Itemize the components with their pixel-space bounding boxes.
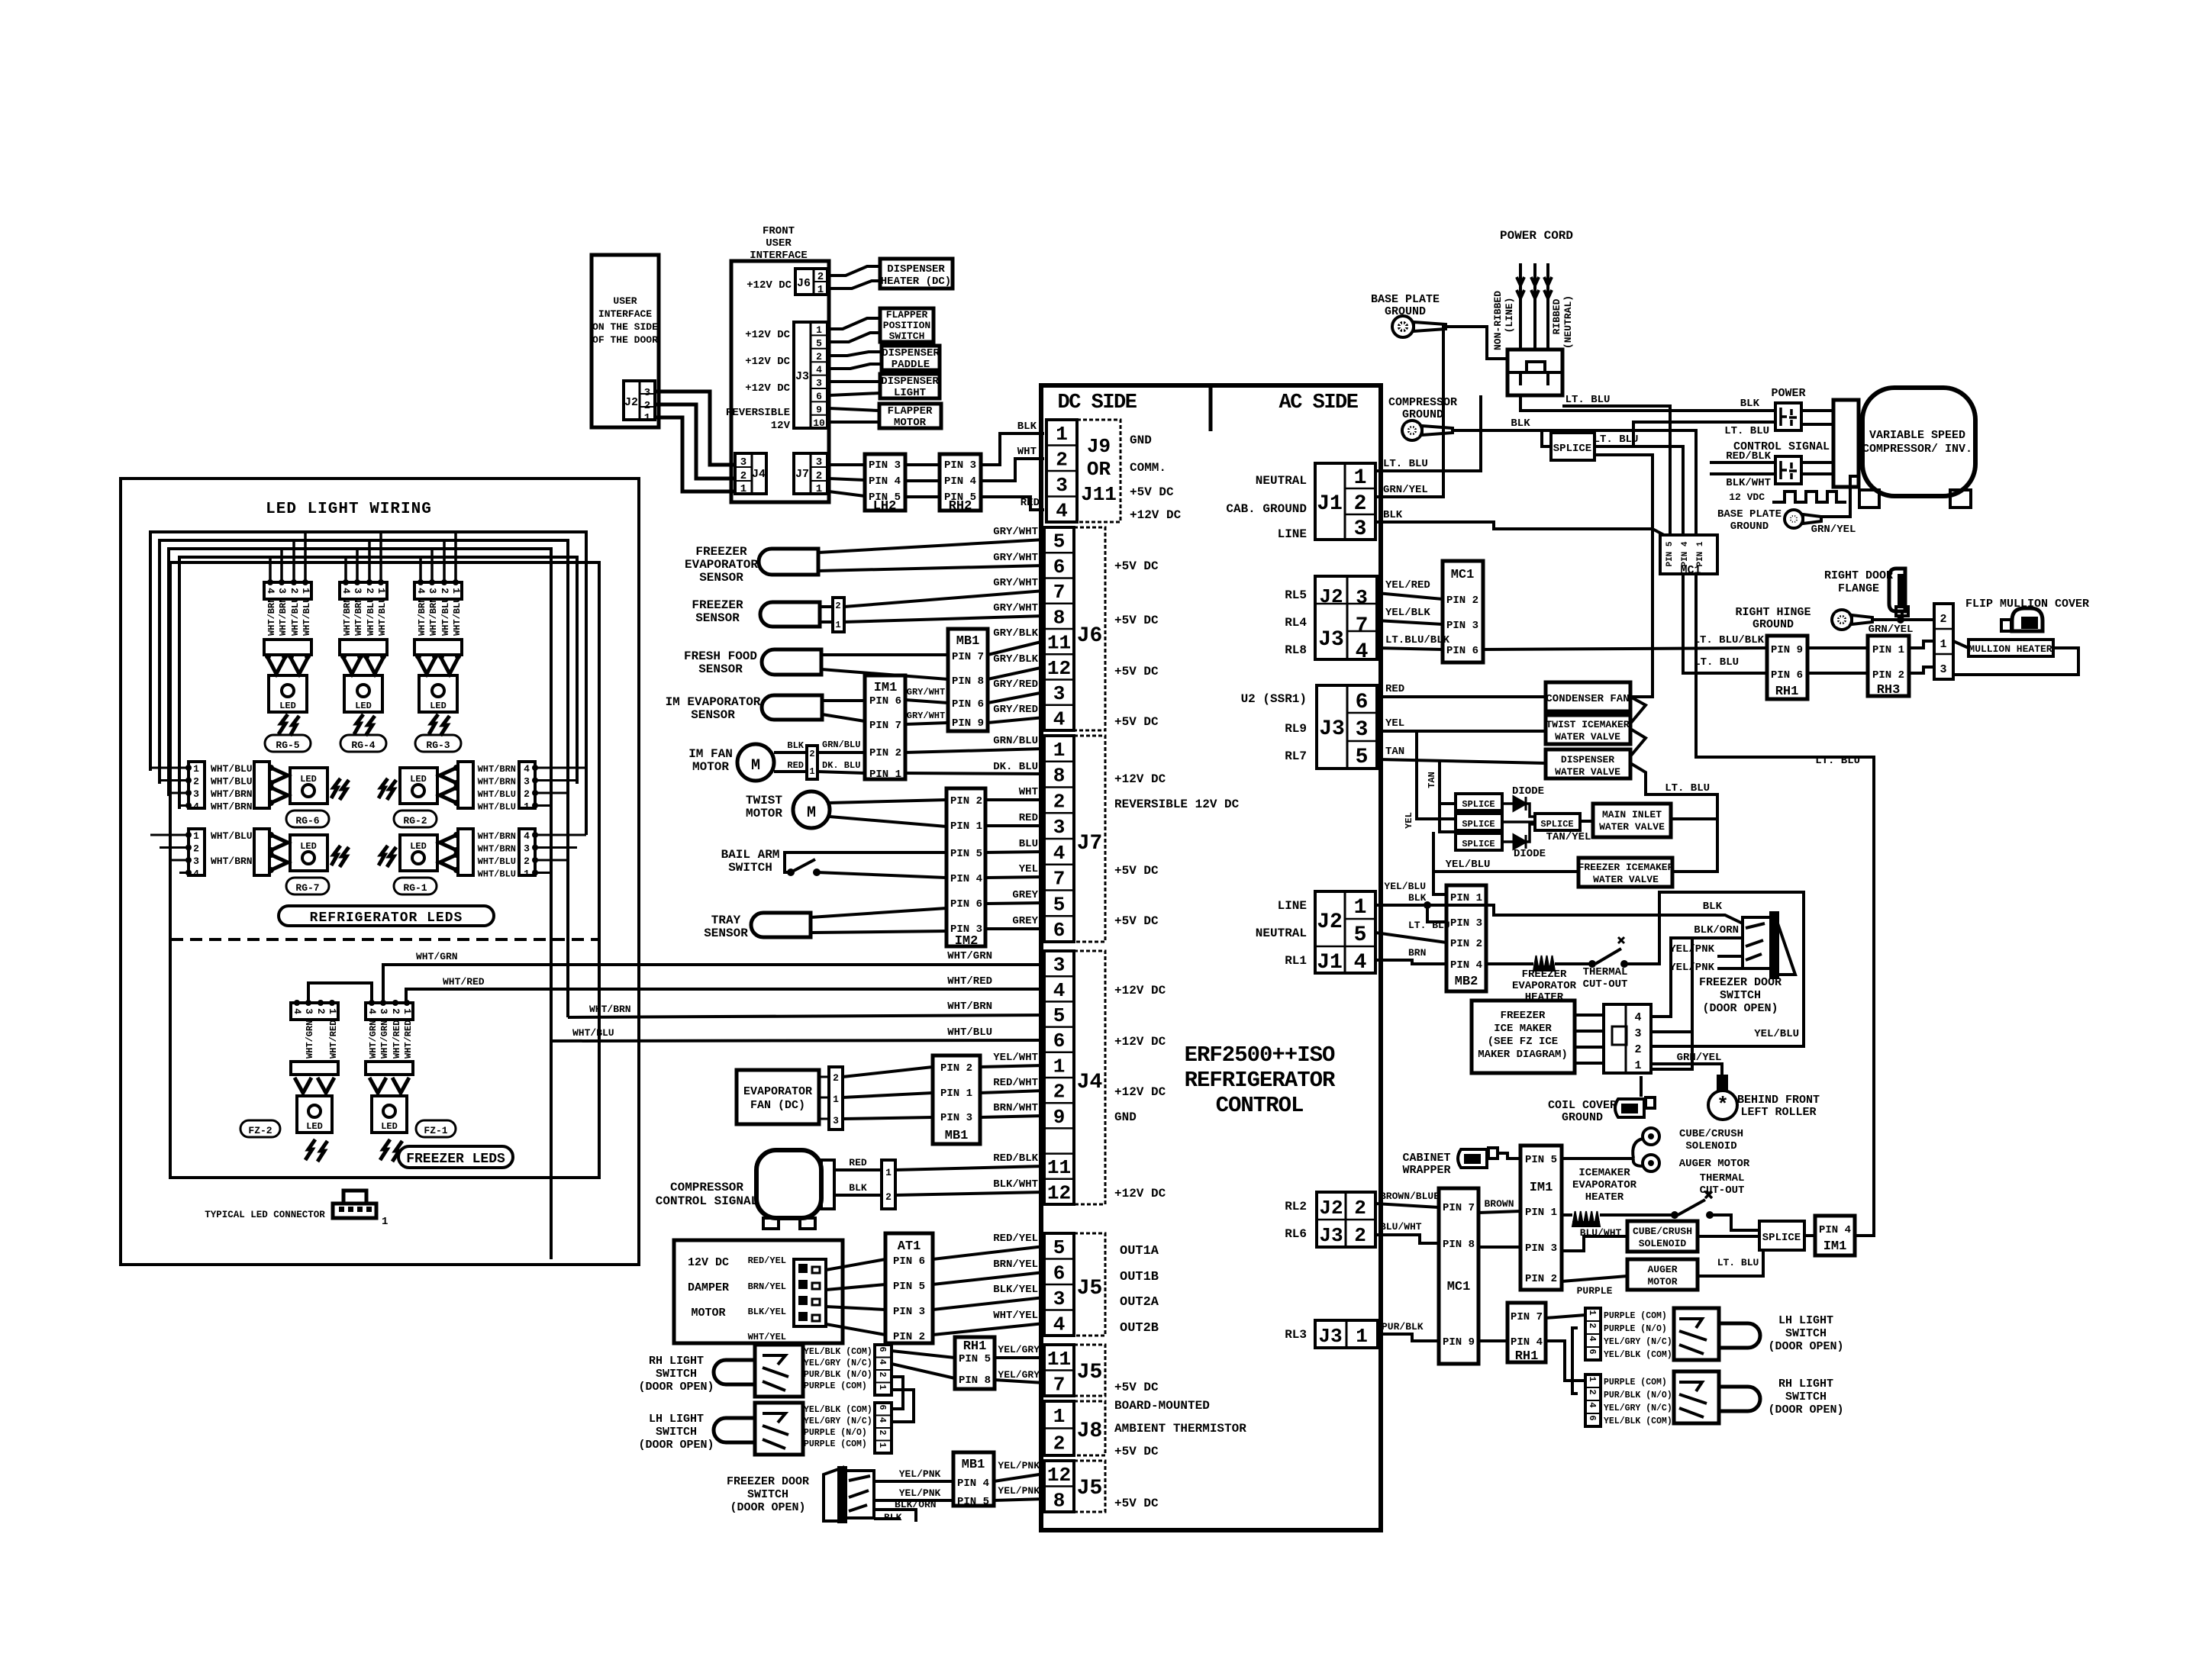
svg-text:GROUND: GROUND [1402,408,1443,421]
svg-text:PIN 7: PIN 7 [869,720,901,732]
svg-text:BLK: BLK [1408,892,1427,904]
wire hinge ground GRN/YEL to mullion conn [1872,618,1934,621]
LED FZ-1 assembly [366,1003,413,1020]
svg-text:YEL/BLK: YEL/BLK [1385,607,1430,619]
connector J5 11/7 [1044,1345,1074,1396]
svg-text:RG-5: RG-5 [276,740,299,751]
LH light switch connector pins [875,1403,892,1453]
svg-text:YEL/BLK (COM): YEL/BLK (COM) [1604,1350,1672,1360]
svg-text:LED LIGHT WIRING: LED LIGHT WIRING [266,501,432,518]
svg-text:TAN/YEL: TAN/YEL [1546,831,1591,843]
svg-text:WHT/BRN: WHT/BRN [478,777,516,788]
wire J1 GRN/YEL to base plate ground [1375,327,1447,497]
svg-text:SENSOR: SENSOR [704,927,748,940]
svg-text:WATER VALVE: WATER VALVE [1555,766,1620,778]
svg-text:3: 3 [816,378,822,389]
svg-text:NON-RIBBED: NON-RIBBED [1492,291,1504,350]
svg-text:12V: 12V [771,420,791,432]
svg-text:RH2: RH2 [949,499,972,514]
svg-text:TYPICAL LED CONNECTOR: TYPICAL LED CONNECTOR [205,1210,325,1220]
svg-text:LH2: LH2 [873,499,897,514]
svg-text:IM1: IM1 [874,681,898,695]
svg-text:PIN 4: PIN 4 [1511,1336,1543,1349]
LED light wiring outer box [121,479,639,1265]
svg-text:2: 2 [877,1429,888,1435]
svg-text:RH LIGHT: RH LIGHT [1778,1378,1833,1391]
svg-text:J5: J5 [1077,1477,1103,1500]
svg-text:FZ-1: FZ-1 [424,1125,447,1136]
svg-text:2: 2 [1354,1224,1366,1247]
svg-text:EVAPORATOR: EVAPORATOR [1512,980,1577,992]
wire splice to condenser loads [1595,455,1653,697]
svg-text:LT. BLU: LT. BLU [1408,920,1450,931]
svg-text:SOLENOID: SOLENOID [1639,1238,1687,1249]
svg-text:2: 2 [1056,448,1068,471]
svg-text:PIN 1: PIN 1 [1696,541,1705,566]
svg-text:4: 4 [1056,499,1068,522]
svg-text:YEL/PNK: YEL/PNK [998,1485,1040,1497]
front user interface box [731,261,829,502]
svg-text:RL9: RL9 [1285,722,1307,736]
svg-text:4: 4 [1587,1336,1598,1341]
svg-text:WHT/BRN: WHT/BRN [278,598,289,636]
wire evap fan to MB1 [843,1067,933,1077]
svg-text:(LINE): (LINE) [1504,298,1515,334]
svg-text:PIN 1: PIN 1 [950,820,982,833]
svg-text:2: 2 [1587,1389,1598,1394]
svg-text:WHT/BRN: WHT/BRN [478,764,516,775]
svg-text:WHT/BRN: WHT/BRN [211,856,253,867]
svg-text:SWITCH: SWITCH [656,1368,697,1381]
svg-text:RH LIGHT: RH LIGHT [649,1355,704,1368]
wire ice maker pin 4 up BLK/ORN [1651,938,1743,1017]
connector RH1 (light switches) [1507,1303,1546,1362]
svg-text:BRN/WHT: BRN/WHT [993,1102,1038,1114]
svg-text:J2: J2 [1319,585,1343,608]
svg-text:2: 2 [1053,1081,1066,1104]
svg-text:LED: LED [410,774,427,785]
svg-text:YEL/PNK: YEL/PNK [899,1468,941,1480]
svg-text:REFRIGERATOR: REFRIGERATOR [1185,1068,1336,1093]
svg-text:LT. BLU: LT. BLU [1815,755,1860,767]
svg-text:+12V DC: +12V DC [745,356,790,368]
svg-text:LH LIGHT: LH LIGHT [649,1413,704,1426]
svg-text:BASE PLATE: BASE PLATE [1371,293,1440,306]
svg-text:8: 8 [1053,765,1066,788]
svg-text:GRY/WHT: GRY/WHT [907,711,945,721]
svg-text:FREEZER DOOR: FREEZER DOOR [1699,976,1782,989]
svg-text:LT. BLU/BLK: LT. BLU/BLK [1694,634,1765,646]
connector IM1 (sensors) [865,675,905,779]
svg-text:GROUND: GROUND [1753,618,1794,631]
svg-text:PIN 2: PIN 2 [1450,938,1482,950]
svg-text:3: 3 [1356,718,1369,742]
svg-text:6: 6 [877,1404,888,1410]
svg-text:IM EVAPORATOR: IM EVAPORATOR [666,695,761,709]
svg-text:FZ-2: FZ-2 [248,1125,272,1136]
svg-text:MOTOR: MOTOR [1647,1276,1677,1287]
wire MC1 pin9 to RH1 [1478,1339,1507,1342]
svg-text:AMBIENT THERMISTOR: AMBIENT THERMISTOR [1114,1422,1246,1436]
cube/crush solenoid bullet [1643,1128,1659,1145]
svg-text:(DOOR OPEN): (DOOR OPEN) [638,1439,714,1452]
svg-text:TWIST: TWIST [746,794,782,807]
svg-text:3: 3 [1356,586,1368,609]
svg-text:TWIST ICEMAKER: TWIST ICEMAKER [1546,719,1629,730]
svg-text:+12V DC: +12V DC [1114,1187,1166,1200]
connector J3 relays U2 RL9 RL7 [1317,685,1377,769]
svg-text:RG-2: RG-2 [403,815,427,827]
wire YEL/BLU to freezer icemaker valve [1433,832,1578,872]
svg-text:5: 5 [1053,1004,1066,1027]
svg-text:MC1: MC1 [1447,1280,1471,1294]
svg-text:SENSOR: SENSOR [691,708,735,722]
svg-text:BASE PLATE: BASE PLATE [1717,508,1782,520]
svg-text:11: 11 [1047,1156,1071,1179]
wire RH1 to LH switch col [1546,1315,1585,1318]
svg-text:PIN 4: PIN 4 [869,475,901,488]
svg-text:PURPLE (COM): PURPLE (COM) [804,1381,867,1391]
svg-text:BROWN: BROWN [1484,1198,1514,1210]
svg-text:YEL/GRY: YEL/GRY [998,1369,1040,1381]
wire IM1 pin2 PURPLE to auger box [1562,1276,1627,1281]
svg-text:YEL: YEL [1019,863,1038,875]
svg-text:2: 2 [1940,613,1946,626]
svg-text:+12V DC: +12V DC [745,329,790,341]
svg-text:PIN 5: PIN 5 [1665,541,1675,566]
svg-text:J3: J3 [1318,1325,1342,1348]
svg-text:PIN 6: PIN 6 [952,698,984,711]
connector IM1 (freezer icemaker) [1520,1146,1562,1290]
svg-text:RG-7: RG-7 [295,882,319,894]
svg-text:PIN 5: PIN 5 [959,1353,991,1365]
svg-text:SWITCH: SWITCH [1785,1391,1827,1403]
evaporator fan 3-pin connector [829,1067,843,1130]
auger motor box [1627,1259,1698,1290]
svg-text:AC SIDE: AC SIDE [1279,392,1359,414]
svg-text:9: 9 [1053,1106,1066,1129]
svg-text:BLK/YEL: BLK/YEL [748,1307,786,1317]
svg-text:+5V DC: +5V DC [1130,485,1174,499]
wire LH col to RH col (AC) [1572,1328,1578,1394]
wire MC1 pin8 to IM1 pin3 [1478,1246,1520,1249]
splice box (icemaker) [1759,1221,1804,1250]
svg-text:J6: J6 [1077,624,1103,648]
svg-text:SPLICE: SPLICE [1762,1232,1801,1244]
svg-text:PUR/BLK (N/O): PUR/BLK (N/O) [804,1370,872,1380]
svg-text:MAKER DIAGRAM): MAKER DIAGRAM) [1478,1049,1568,1061]
svg-text:BLK/ORN: BLK/ORN [895,1499,937,1510]
svg-text:2: 2 [1053,790,1066,813]
connector MC1 (relays) [1443,561,1483,662]
svg-text:4: 4 [265,588,276,594]
svg-text:RH3: RH3 [1877,683,1901,698]
svg-text:4: 4 [877,1417,888,1423]
svg-text:PIN 4: PIN 4 [944,475,976,488]
LED RG-3 assembly [414,582,462,599]
svg-text:FREEZER LEDS: FREEZER LEDS [406,1152,505,1167]
connector RH1 (DC) [955,1337,995,1389]
svg-text:INTERFACE: INTERFACE [598,308,652,320]
svg-text:ICEMAKER: ICEMAKER [1578,1167,1630,1179]
svg-text:OUT2B: OUT2B [1120,1321,1159,1336]
svg-text:PIN 6: PIN 6 [1446,645,1478,657]
svg-text:PIN 2: PIN 2 [1872,669,1904,682]
svg-text:PADDLE: PADDLE [892,359,930,371]
svg-text:2: 2 [1354,492,1367,516]
label REFRIGERATOR LEDS [279,906,494,926]
svg-text:6: 6 [1053,556,1066,578]
svg-text:4: 4 [877,1359,888,1365]
svg-text:4: 4 [1053,1313,1066,1336]
svg-text:PIN 3: PIN 3 [1446,620,1478,632]
svg-text:RL5: RL5 [1285,588,1307,602]
svg-text:3: 3 [644,387,650,399]
svg-text:(SEE FZ ICE: (SEE FZ ICE [1488,1036,1558,1048]
svg-text:USER: USER [766,237,792,250]
connector J4 [1044,951,1074,1204]
svg-text:9: 9 [816,404,822,415]
svg-text:+5V DC: +5V DC [1114,614,1159,627]
svg-text:+5V DC: +5V DC [1114,715,1159,729]
wire MC1 pin7 BROWN to IM1 pin1 [1478,1211,1520,1213]
svg-text:6: 6 [1053,919,1066,942]
svg-text:J2: J2 [624,396,638,409]
svg-text:PIN 3: PIN 3 [1525,1242,1557,1255]
svg-text:PIN 7: PIN 7 [1443,1202,1475,1214]
svg-text:PIN 3: PIN 3 [940,1112,972,1124]
svg-text:PIN 8: PIN 8 [959,1374,991,1387]
svg-text:CONDENSER FAN: CONDENSER FAN [1546,693,1629,705]
svg-text:1: 1 [1354,896,1367,920]
compressor control 2-pin connector [882,1160,895,1209]
svg-text:4: 4 [524,830,530,842]
svg-text:1: 1 [885,1167,892,1178]
svg-text:3: 3 [352,588,363,594]
wire J3 to flapper position switch [829,318,880,329]
svg-text:RED: RED [1021,497,1040,509]
svg-text:BLK/WHT: BLK/WHT [1726,477,1771,489]
svg-text:MULLION HEATER: MULLION HEATER [1969,643,2052,655]
svg-text:2: 2 [1587,1323,1598,1328]
svg-text:EVAPORATOR: EVAPORATOR [1572,1179,1637,1191]
svg-text:6: 6 [1587,1349,1598,1354]
svg-text:PURPLE (COM): PURPLE (COM) [804,1439,867,1449]
svg-text:TRAY: TRAY [711,914,741,927]
svg-text:3: 3 [1354,517,1367,541]
wire connector to J4 pins 11/12 [895,1166,1044,1170]
freezer sensor 2-pin connector [833,598,844,632]
svg-text:OUT1B: OUT1B [1120,1270,1159,1284]
svg-text:COMPRESSOR: COMPRESSOR [670,1181,743,1194]
svg-text:2: 2 [644,400,650,412]
wire J2 relays to MC1 [1377,593,1443,599]
svg-text:MB1: MB1 [945,1129,969,1143]
svg-text:(DOOR OPEN): (DOOR OPEN) [638,1381,714,1394]
svg-text:RED: RED [1385,683,1404,695]
svg-text:OF THE DOOR: OF THE DOOR [592,334,658,346]
svg-text:1: 1 [809,766,814,777]
svg-text:ERF2500++ISO: ERF2500++ISO [1185,1043,1335,1068]
svg-text:RL4: RL4 [1285,616,1307,630]
svg-text:WHT/YEL: WHT/YEL [993,1310,1038,1322]
svg-text:POSITION: POSITION [883,320,930,331]
svg-text:PIN 1: PIN 1 [1450,892,1482,904]
svg-text:SPLICE: SPLICE [1540,819,1573,830]
svg-text:AUGER MOTOR: AUGER MOTOR [1679,1158,1750,1170]
wire stubs left connectors [150,767,189,769]
wire J3 YEL to twist valve [1377,730,1546,733]
svg-text:LED: LED [381,1121,398,1132]
svg-text:FRONT: FRONT [763,225,795,237]
svg-text:2: 2 [816,351,822,363]
svg-text:EVAPORATOR: EVAPORATOR [685,558,758,572]
main inlet water valve box [1593,804,1671,837]
svg-text:CUT-OUT: CUT-OUT [1583,978,1628,991]
wire NEUTRAL LT.BLU to MB2 [1375,933,1446,943]
svg-text:RH1: RH1 [963,1339,987,1354]
svg-text:WHT/BRN: WHT/BRN [342,598,353,636]
power plug box [1507,350,1562,395]
svg-text:SENSOR: SENSOR [695,611,740,625]
wire thermal cutout to freezer door switch loop [1624,892,1804,1046]
LED RG-6 assembly [189,762,205,808]
wire power connector to compressor conn [1801,409,1833,412]
svg-text:1: 1 [833,1094,839,1105]
svg-text:SPLICE: SPLICE [1462,799,1495,810]
mullion heater box [1969,640,2053,656]
wire RH1 to RH3 [1807,646,1868,649]
svg-text:3: 3 [740,456,746,469]
svg-text:RH1: RH1 [1515,1349,1539,1364]
svg-text:2: 2 [193,776,199,788]
wire IM1 to J7 pins 1/8 [905,749,1044,752]
svg-text:(DOOR OPEN): (DOOR OPEN) [1768,1403,1843,1416]
connector J2 [624,381,655,420]
svg-text:J11: J11 [1081,483,1117,506]
svg-text:PIN 4: PIN 4 [957,1478,989,1490]
svg-text:2: 2 [885,1191,892,1203]
svg-text:NEUTRAL: NEUTRAL [1256,927,1307,940]
wire auger box LT. BLU to splice [1698,1250,1763,1276]
svg-text:BLK/YEL: BLK/YEL [993,1284,1038,1296]
svg-text:GRN/BLU: GRN/BLU [993,735,1038,747]
svg-text:3: 3 [816,456,822,469]
svg-text:BLK: BLK [1383,509,1403,521]
svg-text:WHT/BRN: WHT/BRN [353,598,364,636]
svg-text:2: 2 [809,749,814,759]
svg-text:MOTOR: MOTOR [894,417,927,429]
svg-text:WHT/GRN: WHT/GRN [416,951,458,962]
svg-text:GRY/RED: GRY/RED [993,704,1038,716]
svg-text:YEL/BLK (COM): YEL/BLK (COM) [1604,1416,1672,1426]
connector J3 RL3 [1315,1320,1378,1348]
svg-text:J9: J9 [1087,435,1111,458]
svg-text:J4: J4 [1077,1071,1103,1094]
svg-text:WHT: WHT [1017,446,1037,458]
svg-text:1: 1 [1354,466,1367,490]
svg-text:PIN 1: PIN 1 [1872,644,1904,656]
svg-text:WHT/RED: WHT/RED [403,1020,414,1059]
svg-text:1: 1 [376,588,387,594]
svg-text:8: 8 [1053,1489,1066,1512]
svg-text:BLU/WHT: BLU/WHT [1380,1221,1422,1233]
svg-text:5: 5 [1354,923,1367,947]
svg-text:PIN 6: PIN 6 [869,695,901,707]
svg-text:1: 1 [401,1008,413,1014]
svg-text:RIGHT HINGE: RIGHT HINGE [1735,606,1811,619]
svg-text:7: 7 [1053,581,1066,604]
svg-text:YEL: YEL [1385,717,1404,730]
svg-text:PURPLE (COM): PURPLE (COM) [1604,1311,1667,1321]
svg-text:1: 1 [835,620,840,630]
svg-text:WHT/BLU: WHT/BLU [478,802,516,813]
svg-text:GREY: GREY [1012,915,1038,927]
box FLAPPER MOTOR [879,404,941,428]
svg-text:BLK: BLK [1511,417,1530,430]
svg-text:J5: J5 [1077,1361,1103,1384]
svg-text:MOTOR: MOTOR [746,807,782,820]
dispenser water valve box [1546,749,1630,778]
wire IM evap sensor to IM1 [822,699,865,702]
svg-text:RL6: RL6 [1285,1227,1307,1241]
svg-text:PIN 3: PIN 3 [944,459,976,472]
svg-text:RG-1: RG-1 [403,882,427,894]
svg-text:RED/BLK: RED/BLK [993,1152,1038,1165]
svg-text:4: 4 [366,1008,378,1014]
svg-text:8: 8 [1053,606,1066,629]
svg-text:BRN/YEL: BRN/YEL [748,1281,786,1292]
connector J2/J3 relays RL5 RL4 RL8 [1315,576,1377,659]
svg-text:+5V DC: +5V DC [1114,914,1159,928]
wire RH2 to J9 pin 1 BLK [981,433,1044,465]
svg-text:PIN 8: PIN 8 [1443,1239,1475,1251]
svg-text:LED: LED [410,841,427,852]
svg-text:BLK: BLK [1703,901,1723,913]
svg-text:1: 1 [1053,1055,1066,1078]
svg-text:3: 3 [1634,1027,1641,1040]
svg-text:PIN 3: PIN 3 [1450,917,1482,930]
LED RG-5 assembly [264,582,311,599]
svg-text:PIN 4: PIN 4 [1450,959,1482,972]
splice box (power) [1551,433,1595,460]
svg-text:PIN 5: PIN 5 [893,1281,925,1293]
svg-text:SWITCH: SWITCH [728,861,772,875]
svg-text:DIODE: DIODE [1512,785,1544,798]
svg-text:RED/BLK: RED/BLK [1726,450,1771,462]
wire IM fan motor to IM1 [774,751,807,754]
wire J2 to J4 (door UI) [655,392,735,465]
svg-text:+5V DC: +5V DC [1114,1445,1159,1458]
connector J3 (front UI) [794,322,827,428]
svg-text:PIN 9: PIN 9 [1443,1336,1475,1349]
svg-text:1: 1 [644,412,650,424]
wire freezer door switch to MB1 [874,1480,953,1483]
svg-text:BAIL ARM: BAIL ARM [721,848,780,862]
connector J1 (AC) [1315,463,1375,540]
evaporator fan box [737,1070,819,1124]
svg-text:J6: J6 [797,277,811,290]
svg-text:COMPRESSOR/ INV.: COMPRESSOR/ INV. [1862,443,1972,456]
connector LH2 [865,454,905,511]
svg-text:PIN 1: PIN 1 [1525,1207,1557,1219]
svg-text:SPLICE: SPLICE [1462,819,1495,830]
svg-text:GND: GND [1130,433,1152,447]
svg-text:LED: LED [306,1121,323,1132]
svg-text:(DOOR OPEN): (DOOR OPEN) [730,1501,805,1514]
svg-text:WHT/YEL: WHT/YEL [748,1332,786,1342]
svg-text:COIL COVER: COIL COVER [1548,1099,1617,1112]
